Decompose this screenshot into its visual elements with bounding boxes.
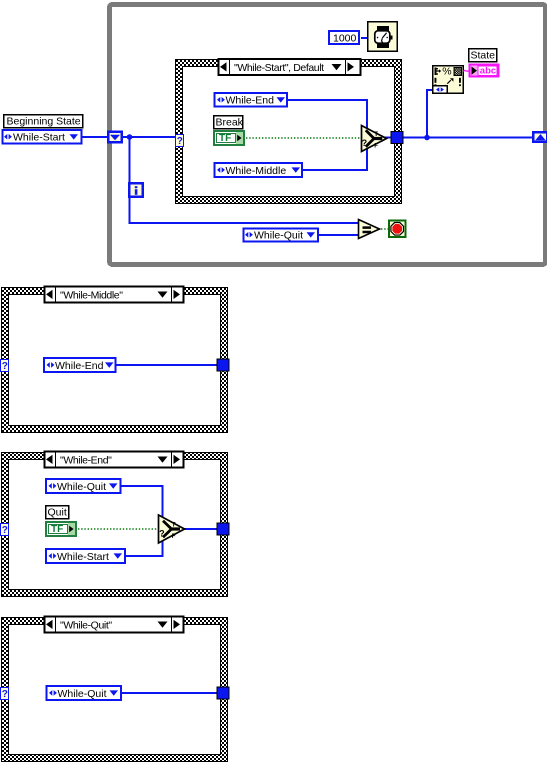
svg-text:?: ? — [2, 689, 8, 700]
svg-text:F: F — [172, 533, 176, 540]
svg-text:"While-End": "While-End" — [60, 454, 112, 466]
svg-text:While-End: While-End — [55, 360, 104, 372]
svg-text:While-Start: While-Start — [13, 132, 65, 144]
svg-text:T: T — [172, 522, 176, 529]
svg-text:TF: TF — [219, 133, 231, 144]
svg-text:"While-Quit": "While-Quit" — [60, 619, 112, 631]
svg-text:While-Quit: While-Quit — [58, 688, 107, 700]
svg-text:abc: abc — [480, 66, 496, 77]
svg-text:TF: TF — [51, 524, 63, 535]
svg-text:"While-Middle": "While-Middle" — [60, 289, 123, 301]
svg-text:Beginning State: Beginning State — [7, 116, 81, 128]
svg-text:1000: 1000 — [333, 33, 357, 45]
svg-text:State: State — [471, 50, 496, 62]
svg-text:While-Start: While-Start — [57, 551, 109, 563]
svg-text:?: ? — [2, 361, 8, 372]
svg-text:?: ? — [2, 525, 8, 536]
svg-text:While-Quit: While-Quit — [254, 230, 303, 242]
svg-text:?: ? — [177, 136, 183, 147]
svg-text:%: % — [442, 66, 451, 78]
svg-text:F: F — [374, 143, 378, 150]
svg-text:While-Quit: While-Quit — [57, 481, 106, 493]
svg-text:?: ? — [362, 138, 368, 148]
svg-text:While-Middle: While-Middle — [226, 165, 287, 177]
svg-text:Break: Break — [216, 117, 244, 129]
svg-text:T: T — [374, 131, 378, 138]
svg-text:?: ? — [159, 529, 165, 539]
svg-text:"While-Start", Default: "While-Start", Default — [234, 62, 324, 74]
svg-text:Quit: Quit — [48, 507, 67, 519]
svg-text:While-End: While-End — [226, 95, 275, 107]
